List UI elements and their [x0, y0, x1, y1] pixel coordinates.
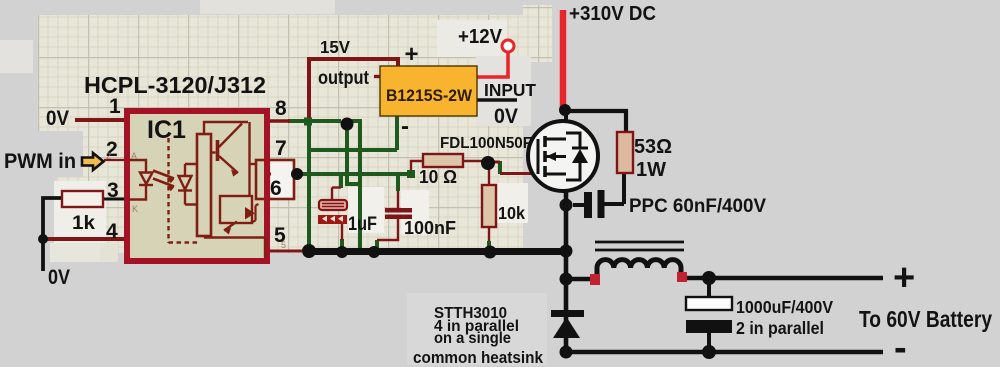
svg-text:1W: 1W — [636, 159, 666, 181]
svg-text:IC1: IC1 — [147, 116, 186, 144]
svg-text:+: + — [893, 257, 915, 299]
svg-text:0V: 0V — [48, 266, 70, 289]
svg-text:-: - — [401, 113, 409, 140]
svg-text:2: 2 — [106, 151, 111, 161]
svg-text:INPUT: INPUT — [484, 80, 536, 100]
svg-text:FDL100N50F: FDL100N50F — [440, 135, 532, 152]
svg-text:100nF: 100nF — [404, 218, 456, 238]
svg-text:15V: 15V — [320, 37, 350, 57]
svg-text:2 in parallel: 2 in parallel — [736, 318, 824, 338]
svg-text:B1215S-2W: B1215S-2W — [386, 86, 473, 105]
svg-text:8: 8 — [275, 97, 287, 120]
svg-text:3: 3 — [107, 179, 119, 202]
svg-text:4: 4 — [106, 220, 118, 243]
svg-text:1k: 1k — [72, 213, 95, 234]
svg-text:+12V: +12V — [458, 26, 503, 48]
svg-text:common heatsink: common heatsink — [413, 349, 544, 367]
svg-text:6: 6 — [270, 177, 282, 200]
svg-text:1000uF/400V: 1000uF/400V — [736, 297, 833, 317]
svg-text:10k: 10k — [498, 203, 525, 223]
svg-text:0V: 0V — [46, 107, 69, 130]
svg-text:on a single: on a single — [434, 330, 511, 347]
svg-text:A: A — [131, 151, 137, 161]
svg-text:7: 7 — [275, 137, 287, 160]
svg-text:+: + — [405, 41, 419, 68]
svg-text:5: 5 — [281, 240, 286, 250]
svg-text:1uF: 1uF — [348, 214, 377, 235]
svg-text:+310V DC: +310V DC — [569, 3, 656, 25]
svg-text:10 Ω: 10 Ω — [419, 167, 457, 187]
svg-text:output: output — [318, 68, 370, 89]
svg-text:To 60V Battery: To 60V Battery — [859, 306, 992, 332]
svg-text:-: - — [894, 327, 907, 367]
svg-text:PWM in: PWM in — [4, 149, 76, 173]
svg-text:0V: 0V — [494, 105, 518, 128]
svg-text:PPC 60nF/400V: PPC 60nF/400V — [629, 196, 766, 217]
svg-text:K: K — [132, 204, 138, 214]
svg-text:1: 1 — [109, 95, 121, 118]
svg-text:53Ω: 53Ω — [634, 136, 672, 158]
